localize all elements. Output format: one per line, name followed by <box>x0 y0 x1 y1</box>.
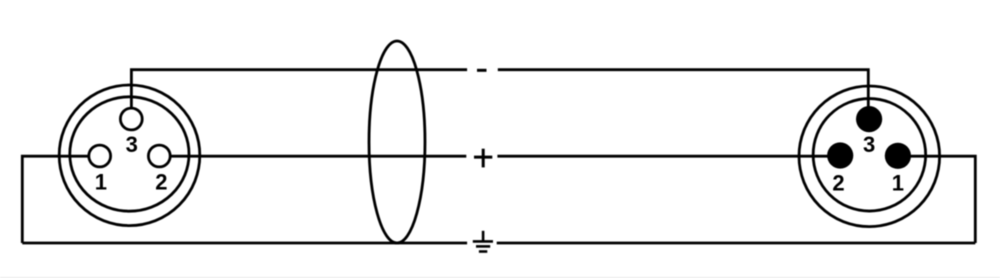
wire: pin3 left up and right (minus line, left segment) <box>131 70 467 119</box>
svg-text:2: 2 <box>155 169 167 194</box>
svg-text:1: 1 <box>95 169 107 194</box>
cable shield ellipse <box>369 41 425 243</box>
J1 pin 3 <box>120 108 142 130</box>
plus label on middle wire <box>474 149 492 168</box>
J2 pin 2 (filled) <box>827 142 853 168</box>
wire: plus line, right segment to right pin2 <box>497 155 840 158</box>
wire: pin1 left to edge, down (ground leg left) <box>22 156 99 243</box>
J2 pin 3 (filled) <box>856 106 882 132</box>
connector J1 outer shell (left XLR female) <box>59 85 200 226</box>
wire: minus line, right segment to right pin3 <box>498 70 869 119</box>
connector J2 inner shell <box>813 99 926 212</box>
faint bottom edge line <box>0 277 1000 278</box>
J2 pin 1 (filled) <box>885 143 911 169</box>
wire: bottom ground run, left segment <box>22 242 467 245</box>
svg-text:3: 3 <box>863 132 875 157</box>
svg-text:3: 3 <box>126 132 138 157</box>
svg-text:1: 1 <box>892 170 904 195</box>
svg-text:2: 2 <box>832 170 844 195</box>
minus label on top wire <box>477 69 487 72</box>
connector J1 inner shell <box>70 97 189 211</box>
wire: right pin1 to edge, down (ground leg right) <box>898 156 975 243</box>
ground symbol on bottom wire <box>473 231 493 252</box>
connector J2 outer shell (right XLR male) <box>799 86 940 227</box>
J1 pin 2 <box>148 145 170 167</box>
wire: bottom ground run, right segment <box>497 242 976 245</box>
J1 pin 1 <box>89 145 111 167</box>
wire: plus line, left segment from pin2 <box>159 155 466 158</box>
